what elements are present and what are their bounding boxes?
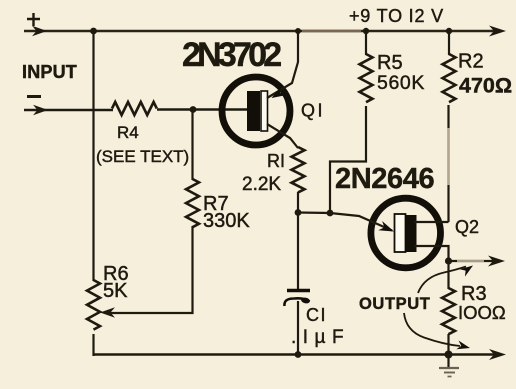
- svg-text:QI: QI: [301, 101, 325, 121]
- node junction dot Q1 emitter: [295, 28, 301, 34]
- svg-text:Q2: Q2: [455, 217, 479, 237]
- node junction dot base: [190, 106, 197, 113]
- transistor Q2: [330, 198, 449, 268]
- transistor Q1: [222, 31, 298, 148]
- svg-text:R4: R4: [117, 123, 139, 142]
- wire C1 top lead: [297, 213, 299, 290]
- resistor R3: [442, 288, 455, 334]
- wire R2 top: [448, 31, 450, 55]
- svg-text:5K: 5K: [103, 280, 128, 302]
- svg-text:+9 TO I2 V: +9 TO I2 V: [349, 6, 444, 26]
- wire R4 to Q1 base: [157, 108, 249, 110]
- wire base node down to R7: [191, 110, 193, 180]
- wire top supply rail: [24, 26, 506, 37]
- node junction dot ground: [445, 351, 453, 359]
- node junction dot top-left: [90, 28, 97, 35]
- node junction dot B1/output: [445, 257, 452, 264]
- node junction dot C1/rail: [295, 351, 302, 358]
- resistor R4: [112, 102, 157, 115]
- wire node to emitter node: [298, 211, 330, 214]
- svg-text:RI: RI: [267, 151, 285, 171]
- svg-text:OUTPUT: OUTPUT: [359, 295, 430, 313]
- svg-text:IOOΩ: IOOΩ: [458, 302, 506, 323]
- wire input lead: [24, 105, 113, 115]
- svg-text:2N3702: 2N3702: [182, 36, 281, 74]
- svg-text:2N2646: 2N2646: [335, 163, 434, 195]
- svg-text:CI: CI: [306, 305, 327, 325]
- wire R5 top: [365, 31, 367, 55]
- callout arrow upper: [418, 262, 476, 293]
- minus terminal: [27, 95, 41, 98]
- resistor R5: [360, 54, 373, 102]
- wire emitter node up to R5: [330, 106, 366, 213]
- wire R3 bottom to rail: [447, 334, 449, 356]
- ground: [439, 355, 459, 377]
- svg-text:330K: 330K: [203, 210, 250, 232]
- resistor R7: [186, 179, 199, 227]
- svg-text:2.2K: 2.2K: [242, 174, 281, 195]
- svg-text:.IµF: .IµF: [291, 327, 350, 348]
- potentiometer R6: [87, 280, 100, 330]
- svg-text:(SEE TEXT): (SEE TEXT): [96, 147, 189, 166]
- svg-text:560K: 560K: [377, 72, 425, 94]
- wire C1 bottom lead: [297, 301, 299, 356]
- node junction dot emitter branch: [327, 210, 334, 217]
- svg-text:R2: R2: [458, 51, 484, 73]
- capacitor C1: [284, 291, 310, 307]
- resistor R2: [443, 54, 456, 102]
- svg-text:R5: R5: [377, 52, 403, 74]
- wire R7 to wiper: [100, 226, 193, 318]
- wire output arrow: [449, 256, 506, 267]
- plus terminal: [27, 13, 40, 26]
- callout arrow lower: [404, 313, 471, 352]
- wire R2 bottom to Q2 B2: [447, 105, 449, 222]
- wire R1 bottom to node: [297, 192, 299, 213]
- node junction dot R1/C1: [295, 209, 302, 216]
- wire R6 bottom to rail: [92, 334, 94, 356]
- svg-text:470Ω: 470Ω: [459, 74, 512, 98]
- node junction dot R2 top: [446, 28, 452, 34]
- svg-text:INPUT: INPUT: [22, 62, 77, 82]
- resistor R1: [292, 147, 305, 192]
- node junction dot R5 top: [363, 28, 369, 34]
- wire supply rail down to R6: [92, 31, 94, 281]
- wire node to R3: [447, 261, 449, 289]
- wire bottom rail: [93, 349, 507, 360]
